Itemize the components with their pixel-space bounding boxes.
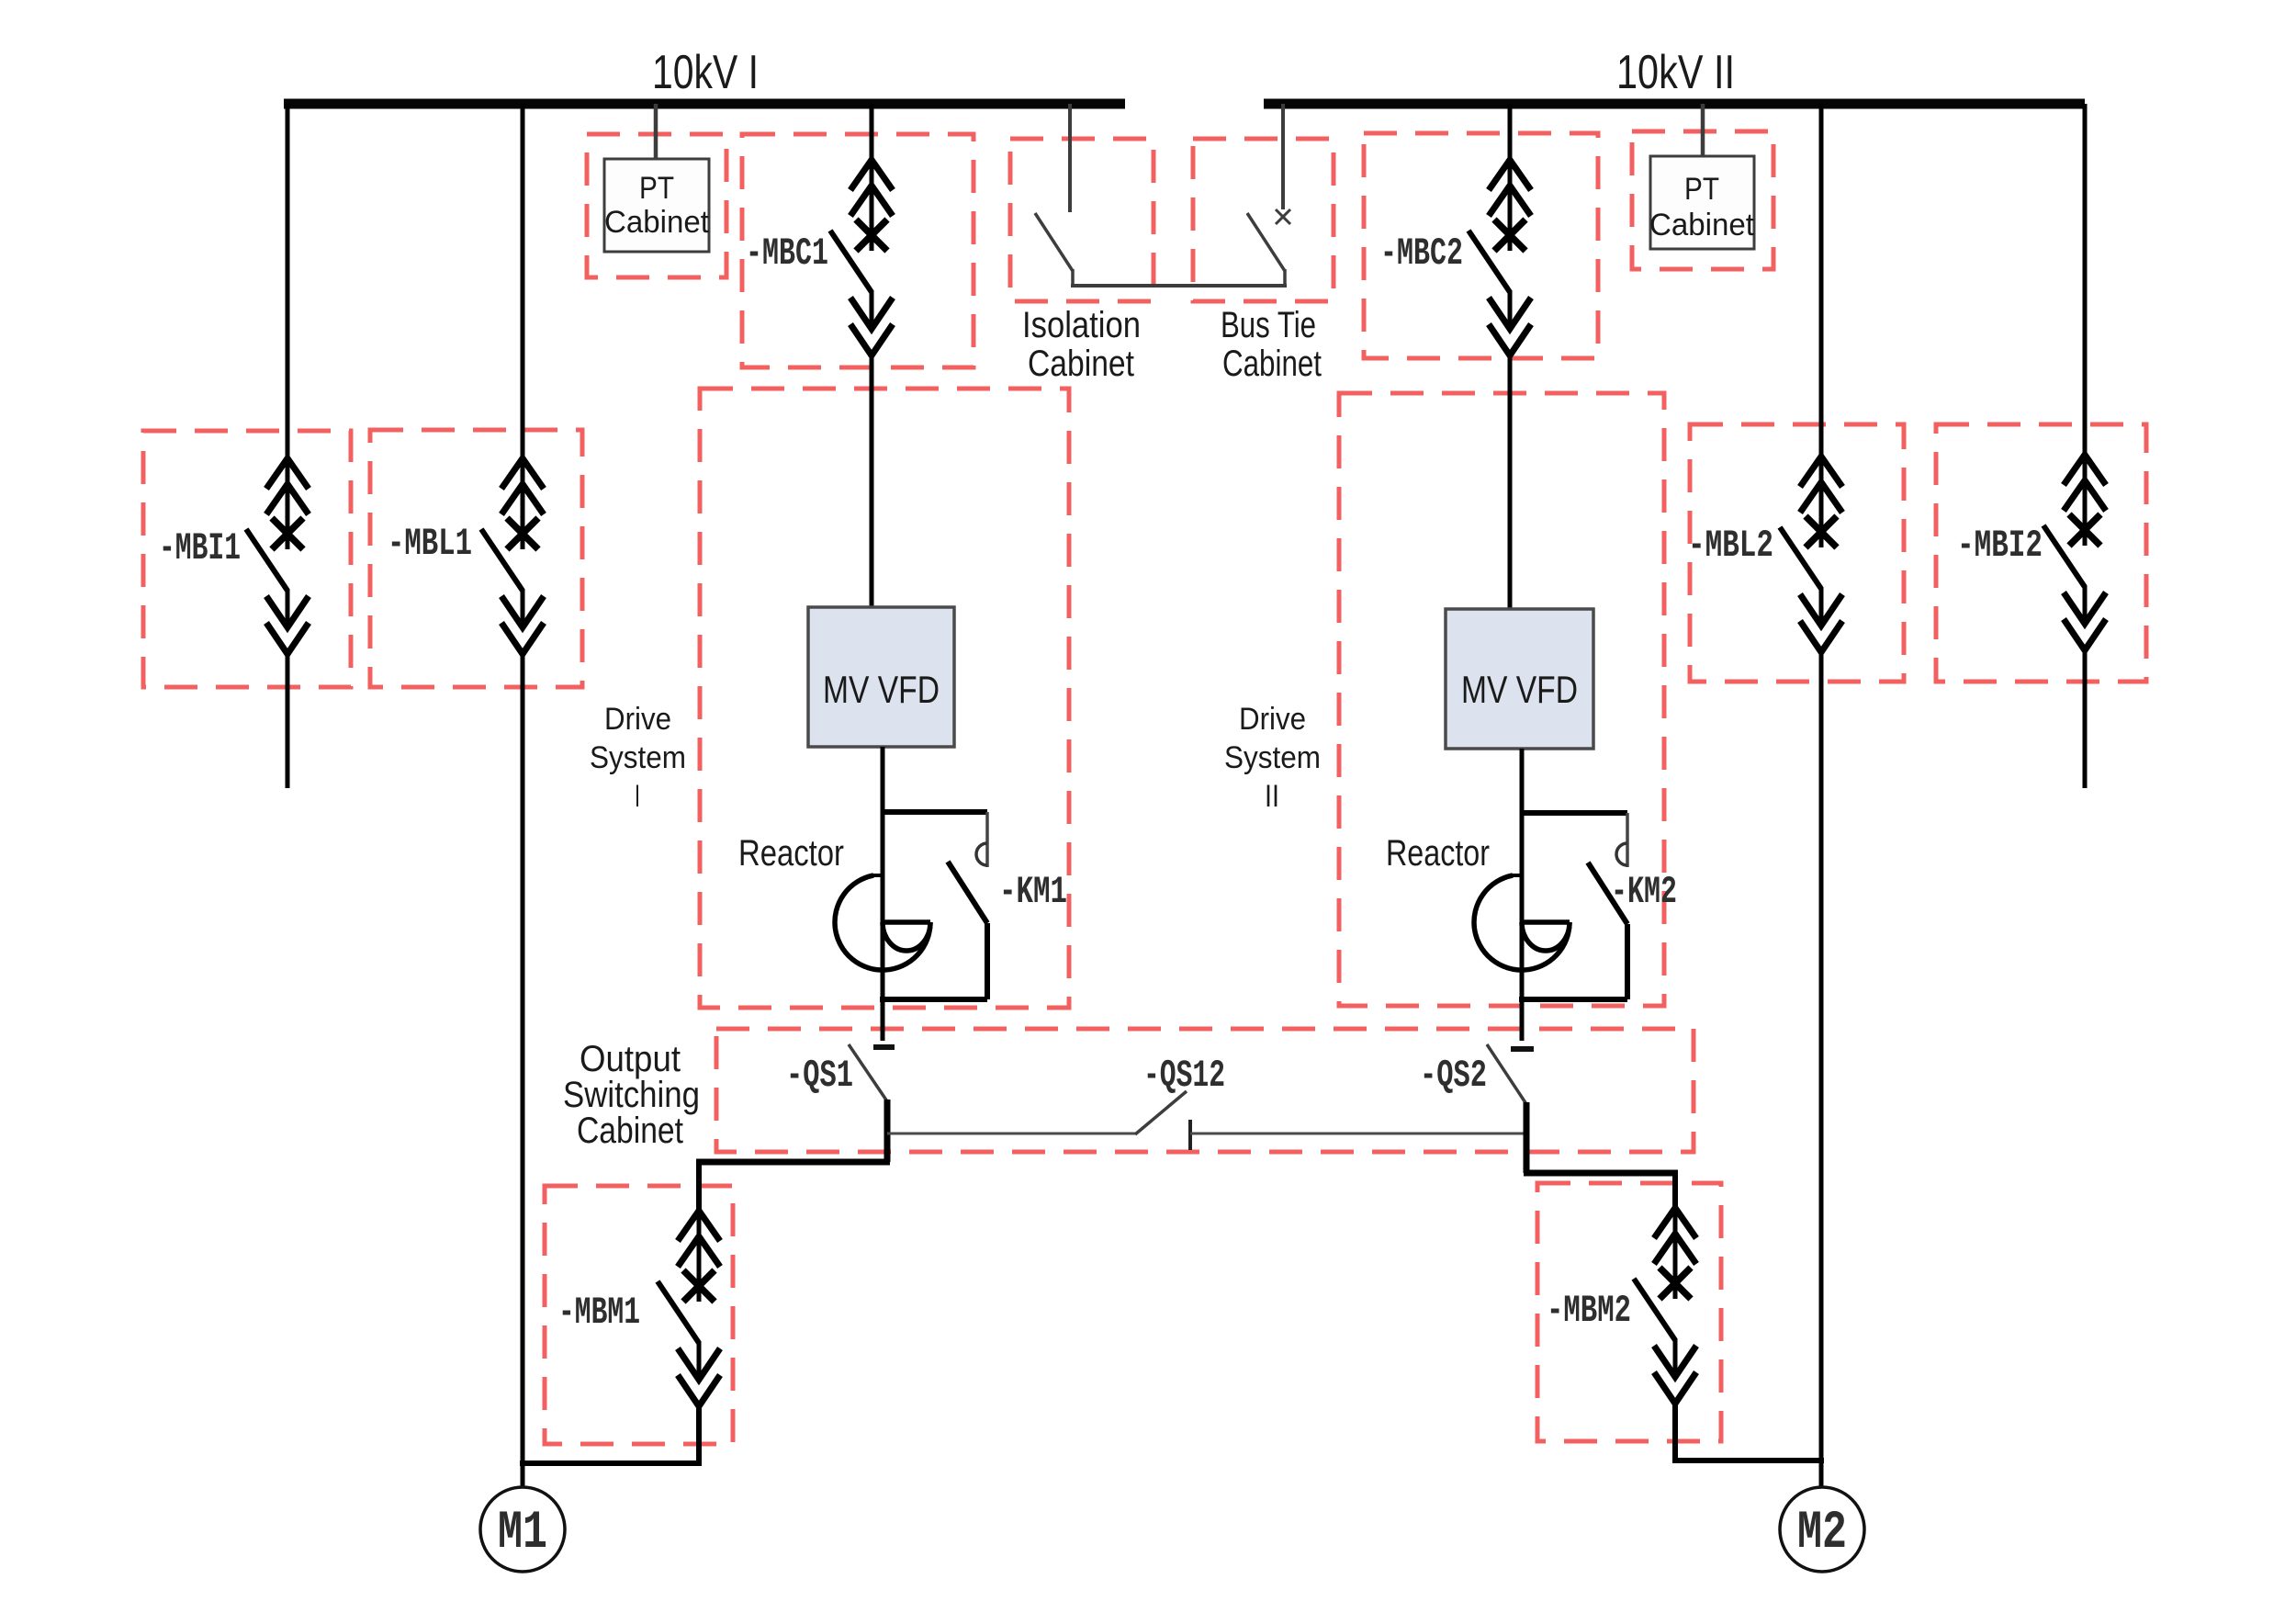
isolation cabinet label <box>1022 305 1141 384</box>
breaker -MBC2 <box>1469 160 1531 355</box>
label -MBM2 <box>1547 1289 1631 1333</box>
wire below MBI2 <box>2083 651 2088 788</box>
motor M1 <box>480 1487 565 1572</box>
svg-text:10kV I: 10kV I <box>652 46 759 99</box>
drive system I label <box>590 702 686 814</box>
bus label 10kV II <box>1616 46 1735 99</box>
switch -QS2 fixed contact bar <box>1511 1046 1534 1052</box>
red dashed box isolation cabinet <box>1010 139 1154 301</box>
label M2 <box>1797 1504 1847 1563</box>
wire isolation to bus tie <box>1071 284 1287 288</box>
wire MBC1 to MV VFD I <box>870 356 874 607</box>
MV VFD I box <box>808 607 954 747</box>
svg-text:-MBL2: -MBL2 <box>1688 524 1773 568</box>
svg-text:-MBI2: -MBI2 <box>1957 524 2043 568</box>
wire QS12 to QS2 <box>1190 1133 1526 1135</box>
svg-text:-MBC2: -MBC2 <box>1380 231 1463 276</box>
svg-text:M2: M2 <box>1797 1504 1847 1563</box>
svg-text:Drive: Drive <box>1239 702 1306 737</box>
MV VFD II box <box>1446 609 1593 749</box>
svg-text:Isolation: Isolation <box>1022 305 1141 345</box>
label -QS12 <box>1143 1054 1225 1098</box>
svg-text:Cabinet: Cabinet <box>577 1111 683 1151</box>
svg-text:-KM2: -KM2 <box>1611 870 1677 914</box>
switch -QS1 blade <box>849 1044 887 1101</box>
reactor I label <box>738 833 844 874</box>
svg-text:Drive: Drive <box>604 702 671 737</box>
motor M2 <box>1780 1487 1864 1572</box>
label -MBC2 <box>1380 231 1463 276</box>
PT cabinet II label <box>1649 172 1755 242</box>
switch -QS1 fixed contact bar <box>873 1044 895 1050</box>
breaker -MBC1 <box>830 160 893 355</box>
red dashed box drive system II <box>1339 393 1664 1006</box>
red dashed box drive system I <box>700 389 1069 1008</box>
wire MBC2 to MV VFD II <box>1508 356 1513 609</box>
PT cabinet I label <box>604 171 710 240</box>
svg-text:-MBM2: -MBM2 <box>1547 1289 1631 1333</box>
svg-text:PT: PT <box>639 171 674 206</box>
contactor -KM1 bypass <box>880 812 987 999</box>
wire bus I to MBL1 and down to motor M1 <box>521 104 525 461</box>
svg-text:M1: M1 <box>498 1504 547 1563</box>
switch -QS12 fixed contact bar <box>1188 1120 1192 1150</box>
wire QS2 feed <box>1520 999 1525 1041</box>
bus tie cabinet label <box>1221 305 1322 384</box>
svg-text:-QS12: -QS12 <box>1143 1054 1225 1098</box>
isolation switch blade <box>1035 213 1073 271</box>
svg-text:-QS1: -QS1 <box>786 1054 853 1098</box>
wire bus I to MBI1 <box>286 104 290 461</box>
svg-text:MV VFD: MV VFD <box>823 668 940 711</box>
svg-text:-MBL1: -MBL1 <box>388 522 472 566</box>
wire bus I to MBC1 <box>870 104 874 163</box>
label -MBL2 <box>1688 524 1773 568</box>
breaker -MBI1 <box>246 458 309 654</box>
wire MBL1 to M1 <box>521 655 525 1487</box>
label -KM2 <box>1611 870 1677 914</box>
svg-text:-QS2: -QS2 <box>1420 1054 1487 1098</box>
wire QS1 to QS12 <box>887 1133 1135 1135</box>
switch -QS2 blade <box>1487 1044 1526 1104</box>
red dashed box PT cabinet I <box>587 134 726 277</box>
switch -QS12 blade <box>1135 1091 1187 1134</box>
bus 10kV I <box>284 99 1125 109</box>
MV VFD II label <box>1461 668 1578 711</box>
reactor II <box>1474 875 1570 970</box>
breaker -MBL1 <box>481 458 544 654</box>
label -KM1 <box>999 870 1067 914</box>
label -MBI1 <box>159 526 241 570</box>
red dashed box bus tie cabinet <box>1193 139 1334 301</box>
wire QS1 to MBM1 <box>696 1159 702 1212</box>
wire bus tie cabinet feed <box>1281 104 1285 209</box>
svg-text:Cabinet: Cabinet <box>1028 344 1134 384</box>
wire MBL2 to M2 <box>1819 653 1824 1487</box>
label -QS2 <box>1420 1054 1487 1098</box>
red dashed box MBC2 cabinet <box>1364 133 1598 358</box>
contactor -KM2 bypass <box>1519 813 1627 999</box>
svg-text:PT: PT <box>1684 172 1719 207</box>
wire MBM2 to M2 junction <box>1672 1404 1824 1460</box>
svg-text:I: I <box>635 779 640 814</box>
svg-text:-MBM1: -MBM1 <box>558 1291 640 1335</box>
red dashed box MBL2 cabinet <box>1690 424 1904 682</box>
svg-text:Bus Tie: Bus Tie <box>1221 305 1316 345</box>
svg-text:-KM1: -KM1 <box>999 870 1067 914</box>
red dashed box PT cabinet II <box>1632 131 1773 269</box>
breaker -MBI2 <box>2043 455 2106 650</box>
red dashed box MBM1 cabinet <box>545 1186 733 1444</box>
wire PT cabinet II feed <box>1701 104 1705 156</box>
bus tie switch stub <box>1283 269 1287 288</box>
wire isolation cabinet feed <box>1068 104 1072 212</box>
svg-text:MV VFD: MV VFD <box>1461 668 1578 711</box>
label -MBM1 <box>558 1291 640 1335</box>
label -MBI2 <box>1957 524 2043 568</box>
red dashed box output switching cabinet <box>716 1029 1694 1152</box>
isolation switch stub <box>1071 269 1075 288</box>
red dashed box MBC1 cabinet <box>742 134 974 367</box>
svg-text:System: System <box>1224 740 1321 775</box>
reactor I <box>835 875 930 970</box>
PT cabinet II box <box>1650 156 1754 249</box>
svg-text:Reactor: Reactor <box>738 833 844 874</box>
label -MBC1 <box>746 231 828 276</box>
output switching cabinet label <box>563 1039 700 1151</box>
svg-text:-MBC1: -MBC1 <box>746 231 828 276</box>
reactor II label <box>1386 833 1490 874</box>
svg-text:II: II <box>1265 779 1279 814</box>
bus tie switch blade <box>1247 213 1285 271</box>
red dashed box MBI2 cabinet <box>1936 424 2146 682</box>
svg-text:-MBI1: -MBI1 <box>159 526 241 570</box>
wire below MBI1 <box>286 655 290 788</box>
breaker -MBL2 <box>1780 457 1842 652</box>
wire bus II to MBC2 <box>1508 104 1513 163</box>
svg-text:10kV II: 10kV II <box>1616 46 1735 99</box>
label -QS1 <box>786 1054 853 1098</box>
breaker -MBM1 <box>658 1211 720 1406</box>
bus label 10kV I <box>652 46 759 99</box>
wire PT cabinet I feed <box>654 104 658 159</box>
svg-text:Switching: Switching <box>563 1075 700 1115</box>
wire MV VFD I output through reactor I <box>881 747 885 1041</box>
breaker -MBM2 <box>1634 1208 1696 1404</box>
bus 10kV II <box>1264 99 2085 109</box>
wire QS2 to MBM2 <box>1672 1170 1678 1210</box>
PT cabinet I box <box>604 159 709 252</box>
wire MV VFD II output through reactor II <box>1520 749 1525 1041</box>
red dashed box MBM2 cabinet <box>1537 1183 1721 1441</box>
svg-text:Reactor: Reactor <box>1386 833 1490 874</box>
svg-text:Cabinet: Cabinet <box>604 205 710 240</box>
wire QS2 output <box>1524 1102 1678 1173</box>
bus tie x mark <box>1276 209 1290 224</box>
svg-text:Cabinet: Cabinet <box>1649 208 1755 242</box>
wire QS1 output <box>696 1100 890 1162</box>
drive system II label <box>1224 702 1321 814</box>
red dashed box MBI1 cabinet <box>143 431 351 687</box>
svg-text:Cabinet: Cabinet <box>1222 344 1322 384</box>
svg-text:Output: Output <box>580 1039 681 1079</box>
wire MBM1 to M1 junction <box>520 1407 702 1463</box>
wire bus II to MBL2 and down to motor M2 <box>1819 104 1824 459</box>
MV VFD I label <box>823 668 940 711</box>
svg-text:System: System <box>590 740 686 775</box>
label M1 <box>498 1504 547 1563</box>
label -MBL1 <box>388 522 472 566</box>
red dashed box MBL1 cabinet <box>370 430 582 687</box>
wire bus II to MBI2 <box>2083 104 2088 457</box>
